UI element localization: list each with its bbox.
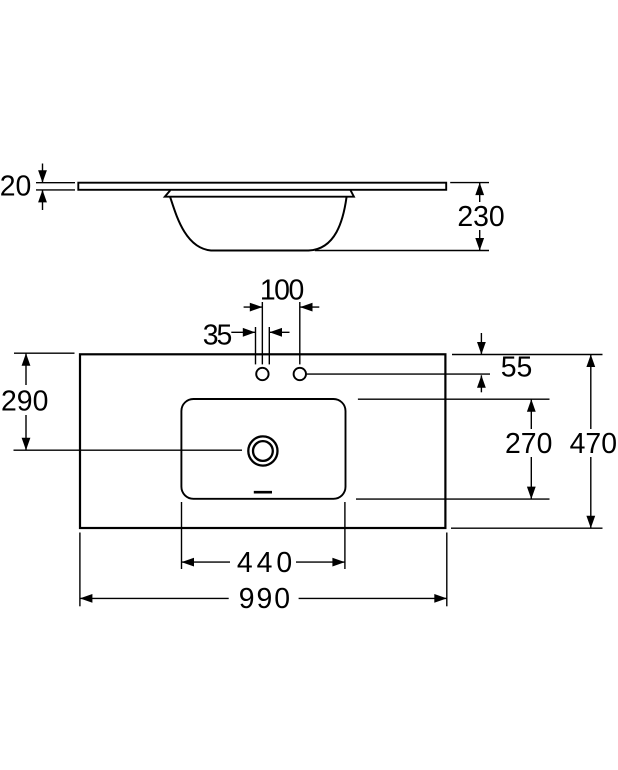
dim 990 leader line and arrows bbox=[80, 594, 447, 603]
dim 20 extension line top bbox=[36, 182, 75, 184]
dim 55 extension line from tap hole bbox=[307, 373, 490, 375]
svg-text:470: 470 bbox=[570, 428, 617, 460]
dim 230 extension line bottom bbox=[315, 250, 489, 252]
dim 470 extension line top bbox=[452, 354, 603, 356]
dim 100 leader line and arrows bbox=[244, 303, 320, 312]
dim 270 extension line top bbox=[358, 398, 550, 400]
tap hole left bbox=[256, 368, 268, 380]
drain outer circle bbox=[248, 436, 277, 465]
tap hole right bbox=[294, 368, 306, 380]
svg-text:55: 55 bbox=[501, 352, 533, 384]
bowl outline (plan view) bbox=[181, 399, 345, 499]
dim 470 leader line and arrows bbox=[586, 355, 595, 529]
dim 20 extension line bottom bbox=[36, 189, 75, 191]
dim 440 extension line right bbox=[344, 502, 346, 569]
drain inner circle bbox=[253, 441, 273, 461]
svg-text:290: 290 bbox=[1, 385, 48, 417]
dim 470 extension line bottom bbox=[451, 527, 603, 529]
dim 35 leader line and arrows bbox=[231, 328, 289, 337]
overflow slot mark bbox=[254, 491, 272, 494]
svg-text:100: 100 bbox=[260, 274, 304, 306]
worktop outline (plan view) bbox=[80, 354, 445, 528]
svg-text:440: 440 bbox=[237, 547, 296, 579]
dim 230 leader line and arrows bbox=[475, 183, 484, 251]
basin bowl (side view) bbox=[170, 197, 346, 250]
dim 230 extension line top bbox=[450, 182, 489, 184]
dim 270 extension line bottom bbox=[356, 498, 550, 500]
dim 990 extension line right bbox=[446, 533, 448, 607]
dim 290 extension line at drain centre bbox=[14, 449, 243, 451]
dim 100 extension line right hole centre bbox=[299, 302, 301, 364]
svg-text:230: 230 bbox=[457, 201, 504, 233]
dim 35 extension line left tangent bbox=[255, 327, 257, 364]
countertop slab (side view) bbox=[78, 183, 446, 190]
dim 55 leader line and arrows bbox=[477, 333, 486, 392]
svg-text:20: 20 bbox=[0, 171, 31, 203]
dim 440 leader line and arrows bbox=[182, 558, 345, 567]
svg-text:270: 270 bbox=[505, 428, 552, 460]
basin rim lip (side view) bbox=[165, 190, 354, 197]
dim 990 extension line left bbox=[79, 533, 81, 607]
svg-text:990: 990 bbox=[239, 583, 292, 615]
dim 20 leader line and arrows bbox=[38, 164, 47, 211]
dim 100 extension line left hole centre bbox=[261, 302, 263, 364]
dim 270 leader line and arrows bbox=[527, 399, 536, 499]
dim 290 extension line top bbox=[14, 352, 75, 354]
svg-text:35: 35 bbox=[203, 319, 232, 351]
dim 290 leader line and arrows bbox=[22, 353, 31, 450]
dim 35 extension line right tangent bbox=[268, 327, 270, 364]
dim 440 extension line left bbox=[181, 502, 183, 569]
